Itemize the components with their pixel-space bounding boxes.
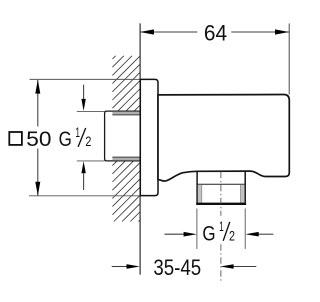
left G1/2 dimension arrows	[77, 85, 105, 190]
wall hatch upper section	[112, 56, 139, 112]
square symbol of 50 label	[9, 132, 22, 145]
extension line right of 64 dimension	[288, 23, 290, 94]
svg-text:1: 1	[75, 125, 80, 140]
bottom G1/2 dimension arrows	[165, 232, 274, 237]
svg-text:50: 50	[26, 127, 51, 151]
outlet centerline (dash-dot)	[220, 172, 222, 281]
svg-text:G: G	[202, 222, 215, 245]
left G1/2 label	[59, 125, 92, 151]
dimension 35-45 arrows	[112, 264, 257, 269]
svg-text:2: 2	[85, 134, 91, 149]
svg-text:2: 2	[229, 228, 235, 243]
bottom G1/2 extension lines	[197, 209, 245, 249]
extension line top of 50 dimension	[30, 78, 141, 80]
dimension 50 line	[35, 80, 40, 196]
extension line bottom of 50 dimension	[29, 195, 140, 197]
svg-text:35-45: 35-45	[153, 255, 201, 280]
inlet nipple with G1/2 thread	[105, 111, 141, 161]
wall line (also left extension of 64 dimension)	[139, 23, 141, 274]
outlet collar and threaded stub	[196, 171, 246, 204]
svg-text:1: 1	[219, 219, 224, 234]
dimension 64 line	[140, 29, 289, 34]
svg-text:64: 64	[204, 20, 227, 45]
wall hatch lower section	[112, 161, 139, 222]
svg-text:G: G	[59, 128, 72, 151]
elbow body outline	[158, 95, 289, 182]
wall flange (square escutcheon, side view)	[140, 79, 158, 195]
bottom G1/2 label	[202, 219, 235, 245]
